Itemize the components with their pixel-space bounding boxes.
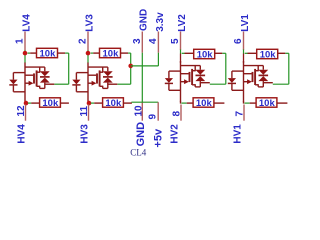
transistor Q3 with protection diodes	[72, 63, 117, 104]
svg-text:HV3: HV3	[80, 124, 91, 144]
svg-text:LV4: LV4	[21, 14, 32, 32]
svg-text:3.3v: 3.3v	[155, 12, 166, 32]
svg-text:10k: 10k	[40, 49, 57, 60]
node +5v pin 9	[131, 102, 164, 147]
svg-text:12: 12	[16, 105, 27, 117]
svg-text:HV2: HV2	[169, 124, 180, 144]
wire	[243, 50, 245, 54]
resistor R4a 10k pull-up	[28, 48, 66, 59]
svg-text:GND: GND	[135, 122, 147, 147]
svg-text:3: 3	[132, 38, 143, 44]
node LV1 top pin	[233, 14, 251, 50]
svg-text:10k: 10k	[260, 50, 277, 61]
resistor R2b 10k pull-up	[181, 98, 224, 109]
wire	[24, 50, 26, 63]
wire 10k to gate loop	[117, 53, 130, 84]
svg-text:GND: GND	[139, 9, 150, 31]
node HV4 bottom pin	[16, 105, 27, 144]
svg-text:CL4: CL4	[130, 147, 147, 157]
svg-text:10k: 10k	[259, 98, 276, 109]
svg-text:LV3: LV3	[84, 14, 95, 32]
resistor R2a 10k pull-up	[182, 49, 223, 60]
junction	[86, 51, 91, 56]
wire	[87, 50, 89, 63]
resistor R1b 10k pull-up	[244, 98, 287, 109]
transistor Q4 with protection diodes	[9, 63, 54, 104]
svg-text:+5v: +5v	[153, 128, 165, 148]
node LV2 top pin	[170, 14, 188, 50]
junction	[24, 101, 29, 106]
svg-text:HV4: HV4	[17, 124, 28, 144]
transistor Q1 with protection diodes	[228, 61, 273, 102]
svg-text:10k: 10k	[105, 98, 122, 109]
svg-text:HV1: HV1	[232, 124, 243, 144]
junction	[23, 51, 28, 56]
junction 3.3v tap	[128, 64, 133, 69]
junction	[87, 101, 92, 106]
svg-text:8: 8	[172, 111, 183, 117]
node HV3 bottom pin	[79, 105, 90, 144]
svg-text:2: 2	[78, 38, 89, 44]
svg-text:5: 5	[170, 38, 181, 44]
svg-text:7: 7	[235, 111, 246, 117]
node 3.3v pin 4	[131, 12, 166, 66]
wire 10k to gate loop	[273, 53, 289, 84]
svg-text:11: 11	[79, 105, 90, 116]
resistor R1a 10k pull-up	[245, 49, 286, 60]
transistor Q2 with protection diodes	[165, 61, 210, 102]
wire	[180, 50, 182, 54]
svg-text:4: 4	[148, 38, 159, 44]
svg-text:1: 1	[15, 38, 26, 44]
svg-text:6: 6	[233, 38, 244, 44]
resistor R4b 10k pull-up	[28, 98, 69, 109]
svg-text:10: 10	[134, 105, 145, 117]
node LV4 top pin	[15, 14, 33, 50]
node HV2 bottom pin	[169, 105, 182, 144]
resistor R3b 10k pull-up	[91, 98, 132, 109]
svg-text:10k: 10k	[197, 50, 214, 61]
svg-text:10k: 10k	[196, 98, 213, 109]
node GND pins 3/10	[132, 9, 150, 147]
node LV3 top pin	[78, 14, 96, 50]
svg-text:LV1: LV1	[240, 14, 251, 32]
wire 10k to gate loop	[54, 53, 68, 84]
svg-text:10k: 10k	[42, 98, 59, 109]
svg-text:LV2: LV2	[177, 14, 188, 32]
wire 10k to gate loop	[210, 53, 226, 84]
svg-text:10k: 10k	[103, 49, 120, 60]
resistor R3a 10k pull-up	[91, 48, 129, 59]
node HV1 bottom pin	[232, 105, 245, 144]
svg-text:9: 9	[148, 114, 159, 120]
